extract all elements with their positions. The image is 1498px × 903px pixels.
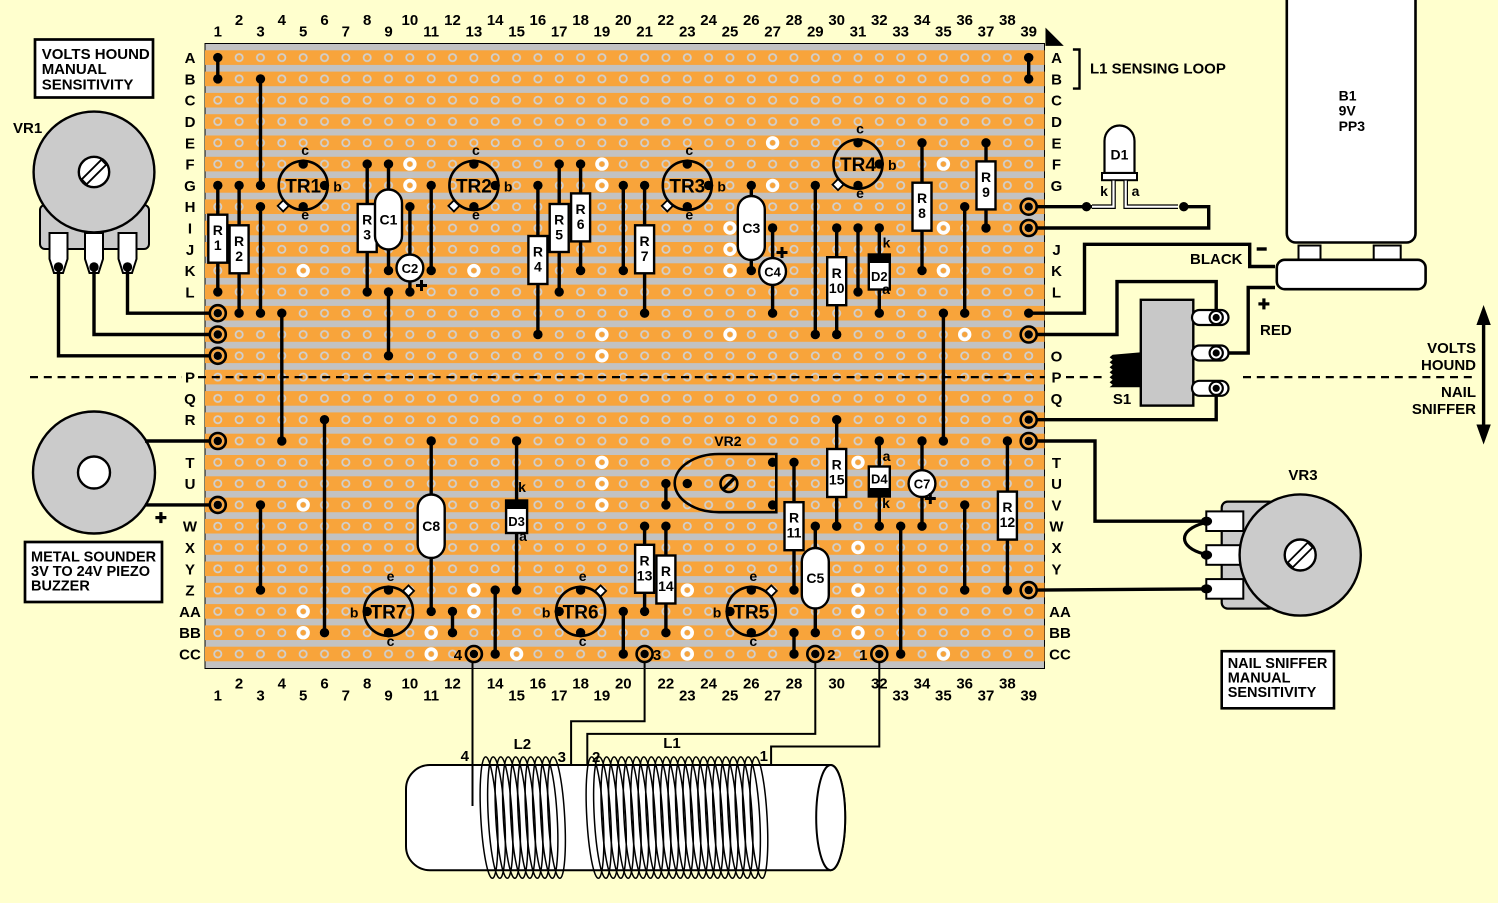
svg-text:TR3: TR3 (669, 176, 705, 197)
coil L2 windings (477, 756, 568, 878)
svg-text:1: 1 (214, 237, 222, 253)
transistor TR5 (713, 568, 777, 649)
svg-text:TR1: TR1 (285, 176, 321, 197)
svg-text:14: 14 (487, 12, 504, 29)
resistor R5 (550, 159, 569, 296)
svg-text:R: R (185, 412, 196, 429)
resistor R8 (913, 138, 932, 275)
svg-text:C2: C2 (402, 261, 419, 276)
solder ring M1 (210, 305, 226, 321)
wire link L9-O9 (384, 287, 393, 360)
svg-text:28: 28 (786, 676, 803, 693)
svg-text:W: W (1049, 519, 1064, 536)
svg-text:6: 6 (320, 676, 328, 693)
svg-text:b: b (350, 604, 359, 620)
svg-text:PP3: PP3 (1339, 118, 1366, 134)
svg-text:21: 21 (636, 24, 653, 41)
svg-text:1: 1 (760, 748, 768, 765)
svg-text:36: 36 (956, 12, 973, 29)
wire link H36-M36 (960, 202, 969, 318)
resistor R4 (528, 181, 547, 339)
battery terminal plus post (1374, 246, 1401, 260)
svg-text:b: b (333, 178, 342, 194)
svg-text:L: L (185, 284, 194, 301)
svg-text:BUZZER: BUZZER (31, 579, 90, 595)
svg-text:H: H (185, 199, 196, 216)
svg-text:14: 14 (658, 578, 674, 594)
svg-text:38: 38 (999, 12, 1016, 29)
svg-text:12: 12 (444, 12, 461, 29)
svg-text:2: 2 (235, 12, 243, 29)
svg-text:C5: C5 (806, 570, 824, 586)
capacitor C7 (909, 436, 936, 531)
svg-text:VR3: VR3 (1288, 467, 1317, 484)
label NAIL SNIFFER mode (1412, 384, 1476, 418)
resistor R6 (571, 159, 590, 275)
solder ring N1 (210, 327, 226, 343)
svg-text:b: b (542, 604, 551, 620)
svg-text:J: J (186, 242, 194, 259)
svg-text:U: U (185, 476, 196, 493)
svg-text:E: E (1051, 135, 1061, 152)
battery clip (1277, 260, 1426, 289)
svg-text:34: 34 (914, 676, 931, 693)
L1 sensing loop bracket (1073, 50, 1226, 89)
svg-text:R: R (640, 552, 650, 568)
svg-text:9V: 9V (1339, 103, 1357, 119)
svg-text:VR1: VR1 (13, 120, 42, 137)
section divider dashed line (30, 376, 1473, 378)
svg-text:Q: Q (184, 391, 196, 408)
solder ring R39 (1021, 412, 1037, 428)
svg-text:8: 8 (918, 205, 926, 221)
track cut marks (298, 138, 969, 659)
svg-text:4: 4 (278, 676, 287, 693)
svg-text:k: k (518, 479, 526, 495)
svg-text:c: c (579, 633, 587, 649)
svg-text:R: R (576, 201, 586, 217)
wire VR1 leg2 to N1 (94, 267, 210, 335)
battery plus sign (1258, 298, 1269, 309)
svg-text:K: K (185, 263, 196, 280)
svg-text:G: G (184, 178, 196, 195)
svg-text:Y: Y (1051, 561, 1061, 578)
svg-text:R: R (533, 244, 543, 260)
svg-text:12: 12 (444, 676, 461, 693)
svg-text:NAIL: NAIL (1441, 384, 1476, 401)
svg-text:R: R (234, 233, 244, 249)
svg-text:R: R (362, 212, 372, 228)
transistor TR4 (832, 121, 896, 202)
slide switch S1 (1110, 300, 1229, 408)
svg-text:6: 6 (320, 12, 328, 29)
label L1 (663, 735, 681, 752)
svg-text:22: 22 (658, 12, 675, 29)
svg-text:S1: S1 (1113, 391, 1131, 408)
svg-text:E: E (185, 135, 195, 152)
resistor R13 (635, 522, 654, 617)
svg-text:C: C (185, 93, 196, 110)
svg-text:B: B (1051, 71, 1062, 88)
wire Z39 to VR3 bottom leg (1036, 589, 1203, 590)
solder ring N39 (1021, 327, 1037, 343)
svg-text:a: a (883, 448, 891, 464)
svg-text:W: W (183, 519, 198, 536)
svg-text:39: 39 (1020, 24, 1037, 41)
svg-text:P: P (185, 370, 195, 387)
svg-text:A: A (185, 50, 196, 67)
svg-text:B1: B1 (1339, 87, 1357, 103)
svg-text:TR2: TR2 (456, 176, 492, 197)
svg-text:26: 26 (743, 12, 760, 29)
label VR3 (1288, 467, 1317, 484)
preset VR2 (675, 433, 778, 512)
svg-text:Q: Q (1051, 391, 1063, 408)
svg-text:19: 19 (594, 688, 611, 705)
svg-text:2: 2 (235, 676, 243, 693)
svg-text:17: 17 (551, 688, 568, 705)
copper strips rows A-CC (205, 50, 1045, 661)
svg-text:31: 31 (850, 24, 867, 41)
wire link V3-Z3 (256, 500, 265, 595)
svg-text:3: 3 (558, 749, 566, 766)
svg-text:18: 18 (572, 12, 589, 29)
svg-text:a: a (1132, 183, 1140, 199)
svg-text:R: R (1002, 499, 1012, 515)
svg-text:C1: C1 (380, 212, 398, 228)
wire link BB28-CC28 (789, 628, 798, 659)
wire link A39-B39 (1024, 53, 1033, 84)
svg-text:1: 1 (214, 24, 222, 41)
svg-text:TR5: TR5 (733, 602, 769, 623)
svg-text:33: 33 (892, 688, 909, 705)
svg-text:22: 22 (658, 676, 675, 693)
svg-text:33: 33 (892, 24, 909, 41)
svg-text:L1: L1 (663, 735, 681, 752)
resistor R7 (635, 181, 654, 318)
coil former cylinder (406, 765, 845, 870)
svg-text:2: 2 (592, 749, 600, 766)
wire link H3-M3 (256, 202, 265, 318)
svg-text:VR2: VR2 (714, 433, 741, 449)
svg-text:k: k (882, 495, 890, 511)
board holes grid (207, 47, 1039, 665)
wire S1 bottom to R39 (1037, 394, 1217, 420)
node M39 (1024, 309, 1033, 318)
wire link B3-G3 (256, 74, 265, 190)
svg-text:T: T (1052, 455, 1061, 472)
svg-text:23: 23 (679, 24, 696, 41)
coil L1 windings (583, 756, 770, 878)
svg-text:L2: L2 (514, 736, 532, 753)
transistor TR7 (350, 568, 414, 649)
wire S39 to VR3 top leg (1036, 441, 1203, 521)
svg-text:O: O (1051, 348, 1063, 365)
diode D3 (506, 436, 527, 595)
wire link W33-CC33 (896, 522, 905, 659)
wire D1 cathode to H39 (1037, 202, 1092, 211)
svg-text:3: 3 (363, 227, 371, 243)
svg-text:TR7: TR7 (371, 602, 407, 623)
resistor R3 (358, 159, 377, 296)
wire link I31-L31 (853, 223, 862, 296)
svg-text:4: 4 (454, 647, 463, 664)
svg-text:F: F (185, 157, 194, 174)
svg-text:VOLTS: VOLTS (1427, 340, 1476, 357)
battery terminal minus post (1299, 246, 1321, 260)
buzzer plus sign (155, 512, 166, 523)
svg-text:27: 27 (764, 24, 781, 41)
svg-text:14: 14 (487, 676, 504, 693)
svg-text:P: P (1051, 370, 1061, 387)
piezo buzzer WD1 (33, 412, 155, 534)
wire battery red lead (1216, 288, 1275, 354)
svg-text:R: R (917, 190, 927, 206)
svg-text:CC: CC (1049, 647, 1071, 664)
svg-text:2: 2 (827, 647, 835, 664)
svg-text:4: 4 (461, 748, 470, 765)
svg-text:R: R (981, 169, 991, 185)
resistor R11 (785, 458, 804, 595)
svg-text:TR4: TR4 (840, 155, 876, 176)
svg-text:24: 24 (700, 676, 717, 693)
coil lead 4 (461, 662, 473, 806)
wire D1 anode to I39 (1036, 202, 1209, 228)
solder ring V1 (210, 497, 226, 513)
svg-text:CC: CC (179, 647, 201, 664)
wire buzzer to S1-left ring (145, 439, 210, 442)
wire link G29-N29 (811, 181, 820, 339)
svg-text:11: 11 (423, 24, 439, 41)
wire link G20-K20 (619, 181, 628, 276)
svg-text:38: 38 (999, 676, 1016, 693)
capacitor C4 (759, 223, 787, 318)
label BLACK (1190, 251, 1243, 268)
resistor R9 (977, 138, 996, 233)
svg-text:1: 1 (214, 688, 222, 705)
svg-text:10: 10 (402, 12, 419, 29)
svg-text:C: C (1051, 93, 1062, 110)
svg-text:15: 15 (508, 688, 525, 705)
resistor R14 (656, 522, 675, 638)
VR3 wiper jumper arc (1185, 523, 1205, 554)
svg-text:BB: BB (1049, 625, 1071, 642)
wire link G11-K11 (427, 181, 436, 276)
svg-text:5: 5 (555, 227, 563, 243)
svg-text:35: 35 (935, 24, 952, 41)
wire battery black lead (1033, 244, 1275, 313)
svg-text:15: 15 (829, 472, 845, 488)
svg-text:25: 25 (722, 688, 739, 705)
svg-text:R: R (789, 510, 799, 526)
svg-text:28: 28 (786, 12, 803, 29)
svg-text:G: G (1051, 178, 1063, 195)
svg-text:e: e (472, 206, 480, 222)
svg-text:I: I (188, 221, 192, 238)
svg-text:19: 19 (594, 24, 611, 41)
svg-text:BB: BB (179, 625, 201, 642)
solder ring H39 (1021, 199, 1037, 215)
svg-text:13: 13 (637, 567, 653, 583)
svg-text:D: D (1051, 114, 1062, 131)
potentiometer VR1 (34, 112, 155, 273)
svg-text:R: R (554, 212, 564, 228)
solder ring 2 (CC29) (807, 646, 835, 664)
battery minus sign (1257, 247, 1267, 250)
svg-text:c: c (387, 633, 395, 649)
label VR1 (13, 120, 42, 137)
svg-text:16: 16 (530, 12, 547, 29)
svg-text:18: 18 (572, 676, 589, 693)
svg-text:39: 39 (1020, 688, 1037, 705)
svg-text:8: 8 (363, 676, 371, 693)
svg-text:Y: Y (185, 561, 195, 578)
svg-text:BLACK: BLACK (1190, 251, 1243, 268)
svg-text:e: e (301, 206, 309, 222)
svg-text:12: 12 (1000, 514, 1016, 530)
svg-text:6: 6 (577, 216, 585, 232)
transistor TR1 (278, 142, 342, 223)
solder ring 3 (CC21) (637, 646, 662, 664)
svg-text:C4: C4 (764, 265, 781, 280)
svg-text:V: V (1051, 497, 1061, 514)
svg-text:C3: C3 (742, 220, 760, 236)
svg-text:B: B (185, 71, 196, 88)
capacitor C1 (375, 159, 402, 275)
svg-text:J: J (1052, 242, 1060, 259)
svg-text:34: 34 (914, 12, 931, 29)
resistor R10 (827, 223, 846, 339)
coil lead 2 (587, 662, 815, 766)
svg-text:36: 36 (956, 676, 973, 693)
svg-text:k: k (883, 235, 891, 251)
svg-text:U: U (1051, 476, 1062, 493)
wire link A1-B1 (213, 53, 222, 84)
svg-text:10: 10 (829, 280, 845, 296)
svg-text:X: X (185, 540, 195, 557)
label box METAL SOUNDER 3V TO 24V PIEZO BUZZER (25, 542, 162, 602)
diode D2 (869, 223, 891, 318)
svg-text:K: K (1051, 263, 1062, 280)
resistor R12 (998, 436, 1017, 595)
svg-text:16: 16 (530, 676, 547, 693)
svg-text:b: b (717, 178, 726, 194)
svg-text:2: 2 (235, 248, 243, 264)
capacitor C8 (418, 436, 445, 616)
svg-text:23: 23 (679, 688, 696, 705)
svg-text:AA: AA (1049, 604, 1071, 621)
svg-text:R: R (661, 563, 671, 579)
wire VR1 leg1 to O1 (59, 267, 210, 356)
LED D1 (1092, 126, 1178, 207)
svg-text:9: 9 (982, 184, 990, 200)
row letters right (1049, 50, 1071, 663)
svg-text:c: c (856, 121, 864, 137)
svg-text:4: 4 (534, 259, 542, 275)
stripboard body (205, 44, 1045, 669)
svg-text:9: 9 (384, 24, 392, 41)
svg-text:X: X (1051, 540, 1061, 557)
mode double arrow (1476, 305, 1490, 445)
wire link M4-S4 (277, 309, 286, 446)
svg-text:c: c (685, 142, 693, 158)
svg-text:AA: AA (179, 604, 201, 621)
svg-text:30: 30 (828, 12, 845, 29)
label L2 (514, 736, 532, 753)
svg-text:32: 32 (871, 12, 888, 29)
diode D4 (869, 436, 891, 531)
wire link AA12-BB12 (448, 607, 457, 638)
potentiometer VR3 (1201, 494, 1361, 615)
resistor R2 (230, 181, 249, 318)
svg-text:e: e (579, 568, 587, 584)
wire link R6-BB6 (320, 415, 329, 637)
svg-text:c: c (749, 633, 757, 649)
wire S1 top to N39 (1037, 282, 1217, 335)
svg-text:RED: RED (1260, 322, 1292, 339)
svg-text:37: 37 (978, 24, 995, 41)
svg-text:27: 27 (764, 688, 781, 705)
svg-text:3: 3 (256, 24, 264, 41)
svg-text:C7: C7 (914, 477, 931, 492)
svg-text:c: c (301, 142, 309, 158)
label RED (1260, 322, 1292, 339)
solder ring 4 (CC13) (454, 646, 482, 664)
svg-text:b: b (888, 157, 897, 173)
svg-text:e: e (387, 568, 395, 584)
svg-text:3: 3 (256, 688, 264, 705)
svg-text:9: 9 (384, 688, 392, 705)
resistor R15 (827, 415, 846, 531)
svg-text:13: 13 (466, 24, 483, 41)
svg-text:10: 10 (402, 676, 419, 693)
svg-text:T: T (185, 455, 194, 472)
svg-text:SENSITIVITY: SENSITIVITY (1228, 685, 1317, 701)
svg-text:8: 8 (363, 12, 371, 29)
svg-text:Z: Z (185, 583, 194, 600)
svg-text:SENSITIVITY: SENSITIVITY (42, 76, 134, 93)
board corner marker (1046, 28, 1064, 46)
label box VOLTS HOUND MANUAL SENSITIVITY (35, 40, 153, 98)
solder ring O1 (210, 348, 226, 364)
transistor TR6 (542, 568, 606, 649)
svg-text:HOUND: HOUND (1421, 357, 1476, 374)
svg-text:30: 30 (828, 676, 845, 693)
wire link V36-Z36 (960, 500, 969, 595)
svg-text:a: a (519, 528, 527, 544)
wire VR1 leg3 to M1 (128, 267, 210, 313)
svg-text:b: b (713, 604, 722, 620)
svg-text:25: 25 (722, 24, 739, 41)
solder ring S1-left (210, 433, 226, 449)
svg-text:A: A (1051, 50, 1062, 67)
svg-text:7: 7 (342, 688, 350, 705)
svg-text:TR6: TR6 (563, 602, 599, 623)
svg-text:37: 37 (978, 688, 995, 705)
svg-text:15: 15 (508, 24, 525, 41)
svg-text:e: e (685, 206, 693, 222)
svg-text:7: 7 (641, 248, 649, 264)
svg-text:L1 SENSING LOOP: L1 SENSING LOOP (1090, 61, 1226, 78)
svg-text:e: e (749, 568, 757, 584)
svg-text:24: 24 (700, 12, 717, 29)
svg-text:D: D (185, 114, 196, 131)
svg-text:7: 7 (342, 24, 350, 41)
column numbers bottom (214, 676, 1037, 705)
svg-text:e: e (856, 185, 864, 201)
svg-text:R: R (640, 233, 650, 249)
svg-text:L: L (1052, 284, 1061, 301)
